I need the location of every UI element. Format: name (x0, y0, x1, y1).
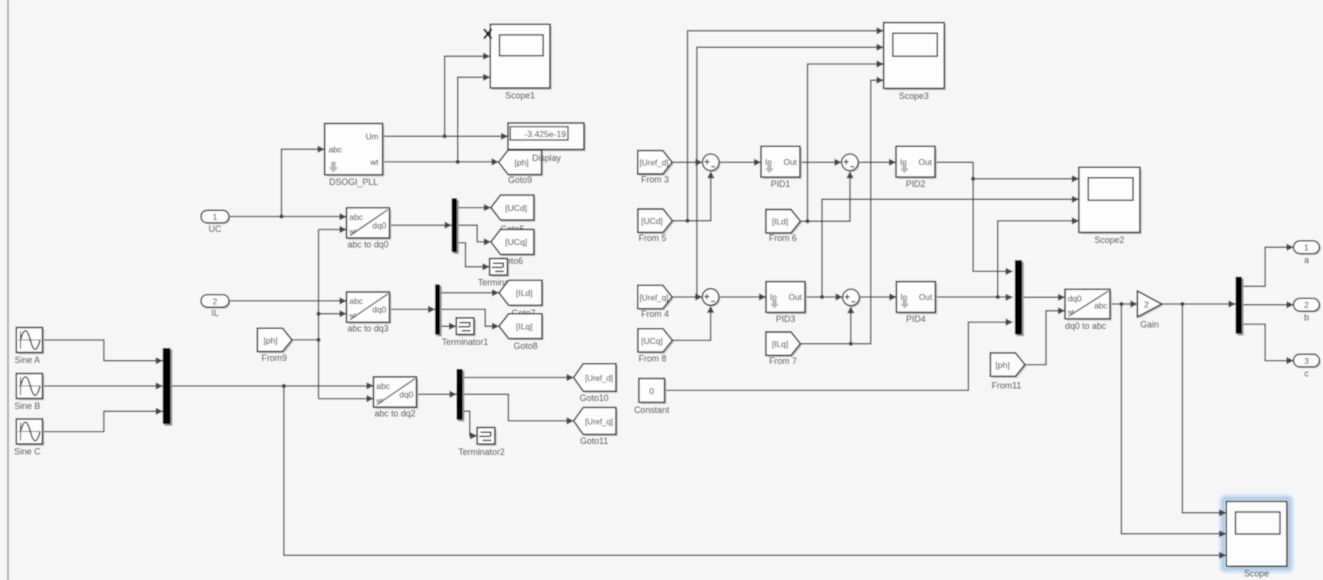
svg-text:abc: abc (329, 144, 343, 154)
svg-text:abc: abc (349, 296, 363, 306)
svg-text:b: b (1304, 313, 1309, 323)
svg-text:abc: abc (349, 212, 363, 222)
svg-text:abc: abc (1094, 300, 1108, 310)
svg-text:From 3: From 3 (641, 175, 669, 185)
svg-text:Terminator2: Terminator2 (458, 447, 505, 457)
svg-text:[ph]: [ph] (995, 360, 1009, 370)
svg-text:[ILd]: [ILd] (516, 288, 533, 298)
svg-text:1: 1 (1304, 243, 1309, 253)
svg-text:Scope2: Scope2 (1094, 235, 1124, 245)
svg-text:dq0 to abc: dq0 to abc (1065, 321, 1107, 331)
svg-text:2: 2 (1144, 299, 1149, 309)
svg-text:[UCq]: [UCq] (505, 237, 527, 247)
svg-text:From 8: From 8 (639, 353, 667, 363)
svg-text:[Uref_q]: [Uref_q] (585, 416, 613, 426)
svg-text:Goto10: Goto10 (580, 393, 609, 403)
svg-text:Goto9: Goto9 (508, 175, 532, 185)
svg-text:dq0: dq0 (372, 220, 386, 230)
svg-text:dq0: dq0 (1068, 293, 1082, 303)
svg-text:PID2: PID2 (906, 179, 926, 189)
svg-text:Sine A: Sine A (15, 355, 41, 365)
svg-text:IL: IL (211, 308, 218, 318)
svg-text:c: c (1304, 369, 1309, 379)
svg-text:From 7: From 7 (769, 356, 797, 366)
svg-text:[ILd]: [ILd] (772, 217, 788, 227)
svg-text:PID1: PID1 (771, 179, 791, 189)
svg-text:[UCd]: [UCd] (641, 216, 662, 226)
svg-text:wt: wt (375, 398, 383, 405)
svg-text:Goto8: Goto8 (514, 341, 538, 351)
svg-text:PID4: PID4 (906, 314, 926, 324)
svg-text:Scope3: Scope3 (899, 91, 929, 101)
svg-text:wt: wt (369, 157, 379, 167)
svg-text:PID3: PID3 (776, 314, 796, 324)
svg-text:Out: Out (919, 157, 933, 167)
svg-text:abc to dq0: abc to dq0 (347, 239, 388, 249)
svg-text:Um: Um (366, 132, 379, 142)
svg-text:3: 3 (1304, 356, 1309, 366)
svg-text:Gain: Gain (1140, 319, 1159, 329)
svg-text:Out: Out (919, 292, 933, 302)
svg-text:2: 2 (213, 296, 218, 306)
svg-text:From9: From9 (261, 353, 287, 363)
svg-text:Terminator1: Terminator1 (442, 337, 489, 347)
svg-text:abc to dq3: abc to dq3 (347, 324, 388, 334)
svg-text:2: 2 (1304, 300, 1309, 310)
svg-text:[UCq]: [UCq] (641, 336, 662, 346)
svg-text:[ILq]: [ILq] (516, 322, 533, 332)
svg-text:Goto11: Goto11 (580, 436, 608, 446)
svg-text:dq0: dq0 (372, 305, 386, 315)
svg-text:From 5: From 5 (639, 233, 667, 243)
svg-text:a: a (1304, 255, 1309, 265)
svg-text:wt: wt (1067, 309, 1075, 316)
svg-text:Scope: Scope (1244, 569, 1269, 579)
svg-text:Scope1: Scope1 (505, 90, 535, 100)
svg-text:abc: abc (376, 381, 390, 391)
svg-text:wt: wt (348, 313, 356, 320)
svg-text:DSOGI_PLL: DSOGI_PLL (329, 177, 378, 187)
svg-text:Sine C: Sine C (14, 446, 41, 456)
svg-text:[UCd]: [UCd] (505, 203, 527, 213)
svg-text:[ph]: [ph] (263, 335, 277, 345)
svg-text:[Uref_d]: [Uref_d] (640, 158, 669, 168)
svg-text:dq0: dq0 (399, 390, 413, 400)
svg-text:[Uref_q]: [Uref_q] (640, 292, 669, 302)
svg-text:Display: Display (532, 153, 561, 163)
svg-text:Sine B: Sine B (14, 401, 40, 411)
svg-text:[ILq]: [ILq] (772, 339, 788, 349)
svg-text:Constant: Constant (634, 405, 670, 415)
svg-text:[Uref_d]: [Uref_d] (585, 373, 613, 383)
svg-text:From11: From11 (992, 381, 1022, 391)
svg-text:1: 1 (213, 212, 218, 222)
svg-text:From 6: From 6 (769, 233, 797, 243)
svg-text:From 4: From 4 (641, 309, 669, 319)
svg-text:abc to dq2: abc to dq2 (374, 409, 415, 419)
svg-text:Out: Out (784, 157, 798, 167)
svg-text:-3.425e-19: -3.425e-19 (524, 129, 566, 139)
svg-text:UC: UC (209, 224, 222, 234)
svg-text:0: 0 (649, 386, 654, 396)
svg-text:Out: Out (789, 292, 803, 302)
svg-text:[ph]: [ph] (514, 158, 528, 168)
svg-text:wt: wt (348, 228, 356, 235)
